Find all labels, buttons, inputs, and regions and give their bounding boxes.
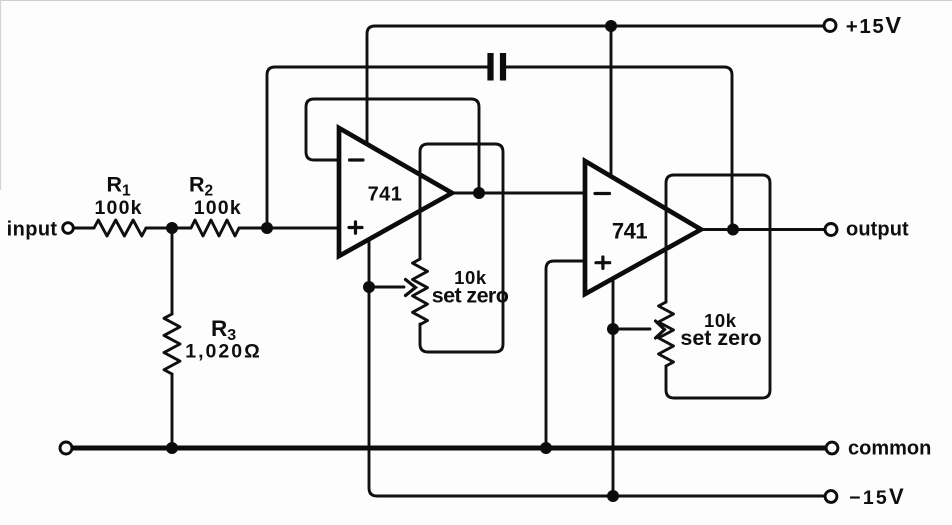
wire U2 noninverting input to common <box>546 261 585 448</box>
resistor R2 <box>191 220 239 236</box>
svg-text:set zero: set zero <box>680 326 761 350</box>
U1 noninverting input sign <box>349 222 362 234</box>
wire R3 to common rail <box>171 374 174 448</box>
wire capacitor to output node of U2 <box>506 67 732 229</box>
junction U2 output node <box>727 224 739 236</box>
junction R3 / common <box>166 442 178 454</box>
wire U2 output <box>701 228 824 231</box>
junction -15V rail / U2 supply <box>607 490 619 502</box>
junction U2 V- / wiper <box>607 323 619 335</box>
wire potentiometer P1 loop <box>420 144 503 352</box>
junction U1 output node <box>473 187 485 199</box>
input terminal <box>63 223 74 234</box>
svg-text:common: common <box>848 438 931 460</box>
-15V terminal <box>825 491 837 503</box>
potentiometer P1 10k <box>413 259 428 325</box>
svg-text:set zero: set zero <box>432 284 509 308</box>
common terminal right <box>826 442 838 454</box>
svg-text:741: 741 <box>612 219 647 244</box>
svg-text:output: output <box>846 219 909 241</box>
wire U1 feedback loop (inverting input to output) <box>306 99 479 193</box>
wire -15V rail and U1 V- pin <box>369 239 824 496</box>
common rail <box>72 446 826 451</box>
junction +15V rail / U2 supply <box>605 20 617 32</box>
+15V terminal <box>824 20 836 32</box>
wire input lead <box>74 227 94 230</box>
svg-text:1,020Ω: 1,020Ω <box>185 341 261 363</box>
svg-text:R1: R1 <box>107 173 132 200</box>
junction node A (R1/R2/R3) <box>166 222 178 234</box>
wire R2 to op-amp U1 noninverting input <box>239 227 339 230</box>
wire node B up to capacitor <box>267 67 487 228</box>
P2 wiper arrow <box>613 328 650 331</box>
op-amp U2 <box>585 161 701 294</box>
op-amp U1 <box>339 128 452 256</box>
wire potentiometer P2 loop <box>666 175 770 398</box>
svg-text:−15V: −15V <box>849 484 906 509</box>
svg-text:R2: R2 <box>189 173 213 200</box>
svg-text:741: 741 <box>368 184 403 206</box>
scan page top edge <box>0 0 952 2</box>
junction U1 V- / wiper <box>363 281 375 293</box>
U2 noninverting input sign <box>596 257 610 268</box>
common terminal left <box>60 442 72 454</box>
wire U1 output to U2 inverting input <box>452 192 585 195</box>
U2 inverting input sign <box>595 192 610 195</box>
capacitor C1 <box>491 53 504 81</box>
P1 wiper arrow <box>369 286 404 289</box>
U1 inverting input sign <box>350 158 364 161</box>
scan page left edge <box>0 0 2 190</box>
output terminal <box>825 224 837 236</box>
svg-text:+15V: +15V <box>846 12 903 38</box>
junction node B (R2/U1 input/capacitor) <box>261 222 273 234</box>
svg-text:input: input <box>7 219 58 241</box>
junction U2 noninverting return / common <box>540 442 552 454</box>
wire +15V rail and U1 V+ pin <box>367 26 824 145</box>
resistor R3 <box>164 314 180 374</box>
wire node A to R3 <box>171 228 174 314</box>
svg-text:100k: 100k <box>194 197 242 219</box>
resistor R1 <box>94 220 146 236</box>
wire R1 to R2 <box>146 227 191 230</box>
svg-text:100k: 100k <box>95 197 143 219</box>
wire U2 V- pin <box>612 277 615 496</box>
wire U2 V+ pin <box>610 26 613 177</box>
potentiometer P2 10k <box>659 302 674 366</box>
